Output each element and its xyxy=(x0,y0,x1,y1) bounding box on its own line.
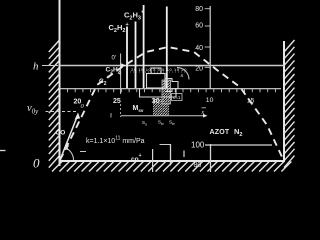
svg-text:10: 10 xyxy=(206,97,214,104)
apparatus hatch band xyxy=(162,80,171,104)
svg-text:c=1: c=1 xyxy=(173,95,181,100)
apparatus rect main xyxy=(147,74,166,89)
apparatus hatch block xyxy=(153,99,169,116)
dashed line below 0' xyxy=(120,104,122,117)
apparatus rect top xyxy=(151,68,161,74)
v0y dashed line xyxy=(46,111,77,113)
dim post left xyxy=(170,144,172,166)
x bar axis xyxy=(121,115,203,117)
y axis ticks xyxy=(205,9,211,68)
y axis xyxy=(209,6,211,89)
svg-text:40: 40 xyxy=(195,45,203,52)
right wall line xyxy=(283,41,285,162)
x bar arrow xyxy=(203,114,208,118)
x bar overline xyxy=(202,107,207,109)
arc n xyxy=(177,68,189,80)
x axis ticks xyxy=(68,89,276,93)
svg-text:25: 25 xyxy=(113,98,121,105)
dim line 100 xyxy=(205,144,272,146)
floor line xyxy=(59,160,286,162)
svg-text:80: 80 xyxy=(194,162,202,169)
svg-text:h: h xyxy=(33,61,39,73)
micro scale dotted line xyxy=(130,71,186,73)
velocity vector xyxy=(60,117,77,160)
apparatus lower outline xyxy=(140,88,177,97)
h level line xyxy=(60,65,285,67)
dashed parabola trajectory xyxy=(60,47,283,160)
h tick xyxy=(42,65,58,67)
c=1 box xyxy=(172,94,183,101)
small segment x80 xyxy=(80,151,86,153)
apparatus right flange xyxy=(165,79,178,92)
small tick near 25 xyxy=(110,113,112,118)
line at 0' xyxy=(120,54,122,95)
floor hatching xyxy=(52,162,291,172)
svg-text:80: 80 xyxy=(195,6,203,13)
spectrum line m29 xyxy=(166,7,168,89)
left wall line xyxy=(59,0,61,166)
svg-text:CO: CO xyxy=(56,130,66,137)
svg-text:0: 0 xyxy=(33,156,40,171)
right wall hatching xyxy=(284,40,295,168)
post x152 xyxy=(152,149,154,172)
spectrum line m27 xyxy=(135,22,137,89)
svg-text:n: n xyxy=(181,73,184,79)
svg-text:20: 20 xyxy=(195,65,203,72)
spectrum line m26 xyxy=(126,27,128,89)
left wall hatching xyxy=(49,40,60,168)
small I tick xyxy=(183,151,185,158)
svg-text:100: 100 xyxy=(191,141,205,150)
svg-text:60: 60 xyxy=(195,23,203,30)
vector arrowhead xyxy=(75,113,81,120)
dim tick left xyxy=(160,144,171,146)
arrowhead to m26 line xyxy=(121,63,127,68)
left edge tick xyxy=(0,150,6,152)
dim post right xyxy=(210,144,212,172)
spectrum line m28 xyxy=(143,5,145,88)
angle arc xyxy=(65,148,74,161)
svg-text:AZOT: AZOT xyxy=(210,129,230,136)
x axis xyxy=(60,88,282,90)
svg-text:x: x xyxy=(201,110,205,116)
